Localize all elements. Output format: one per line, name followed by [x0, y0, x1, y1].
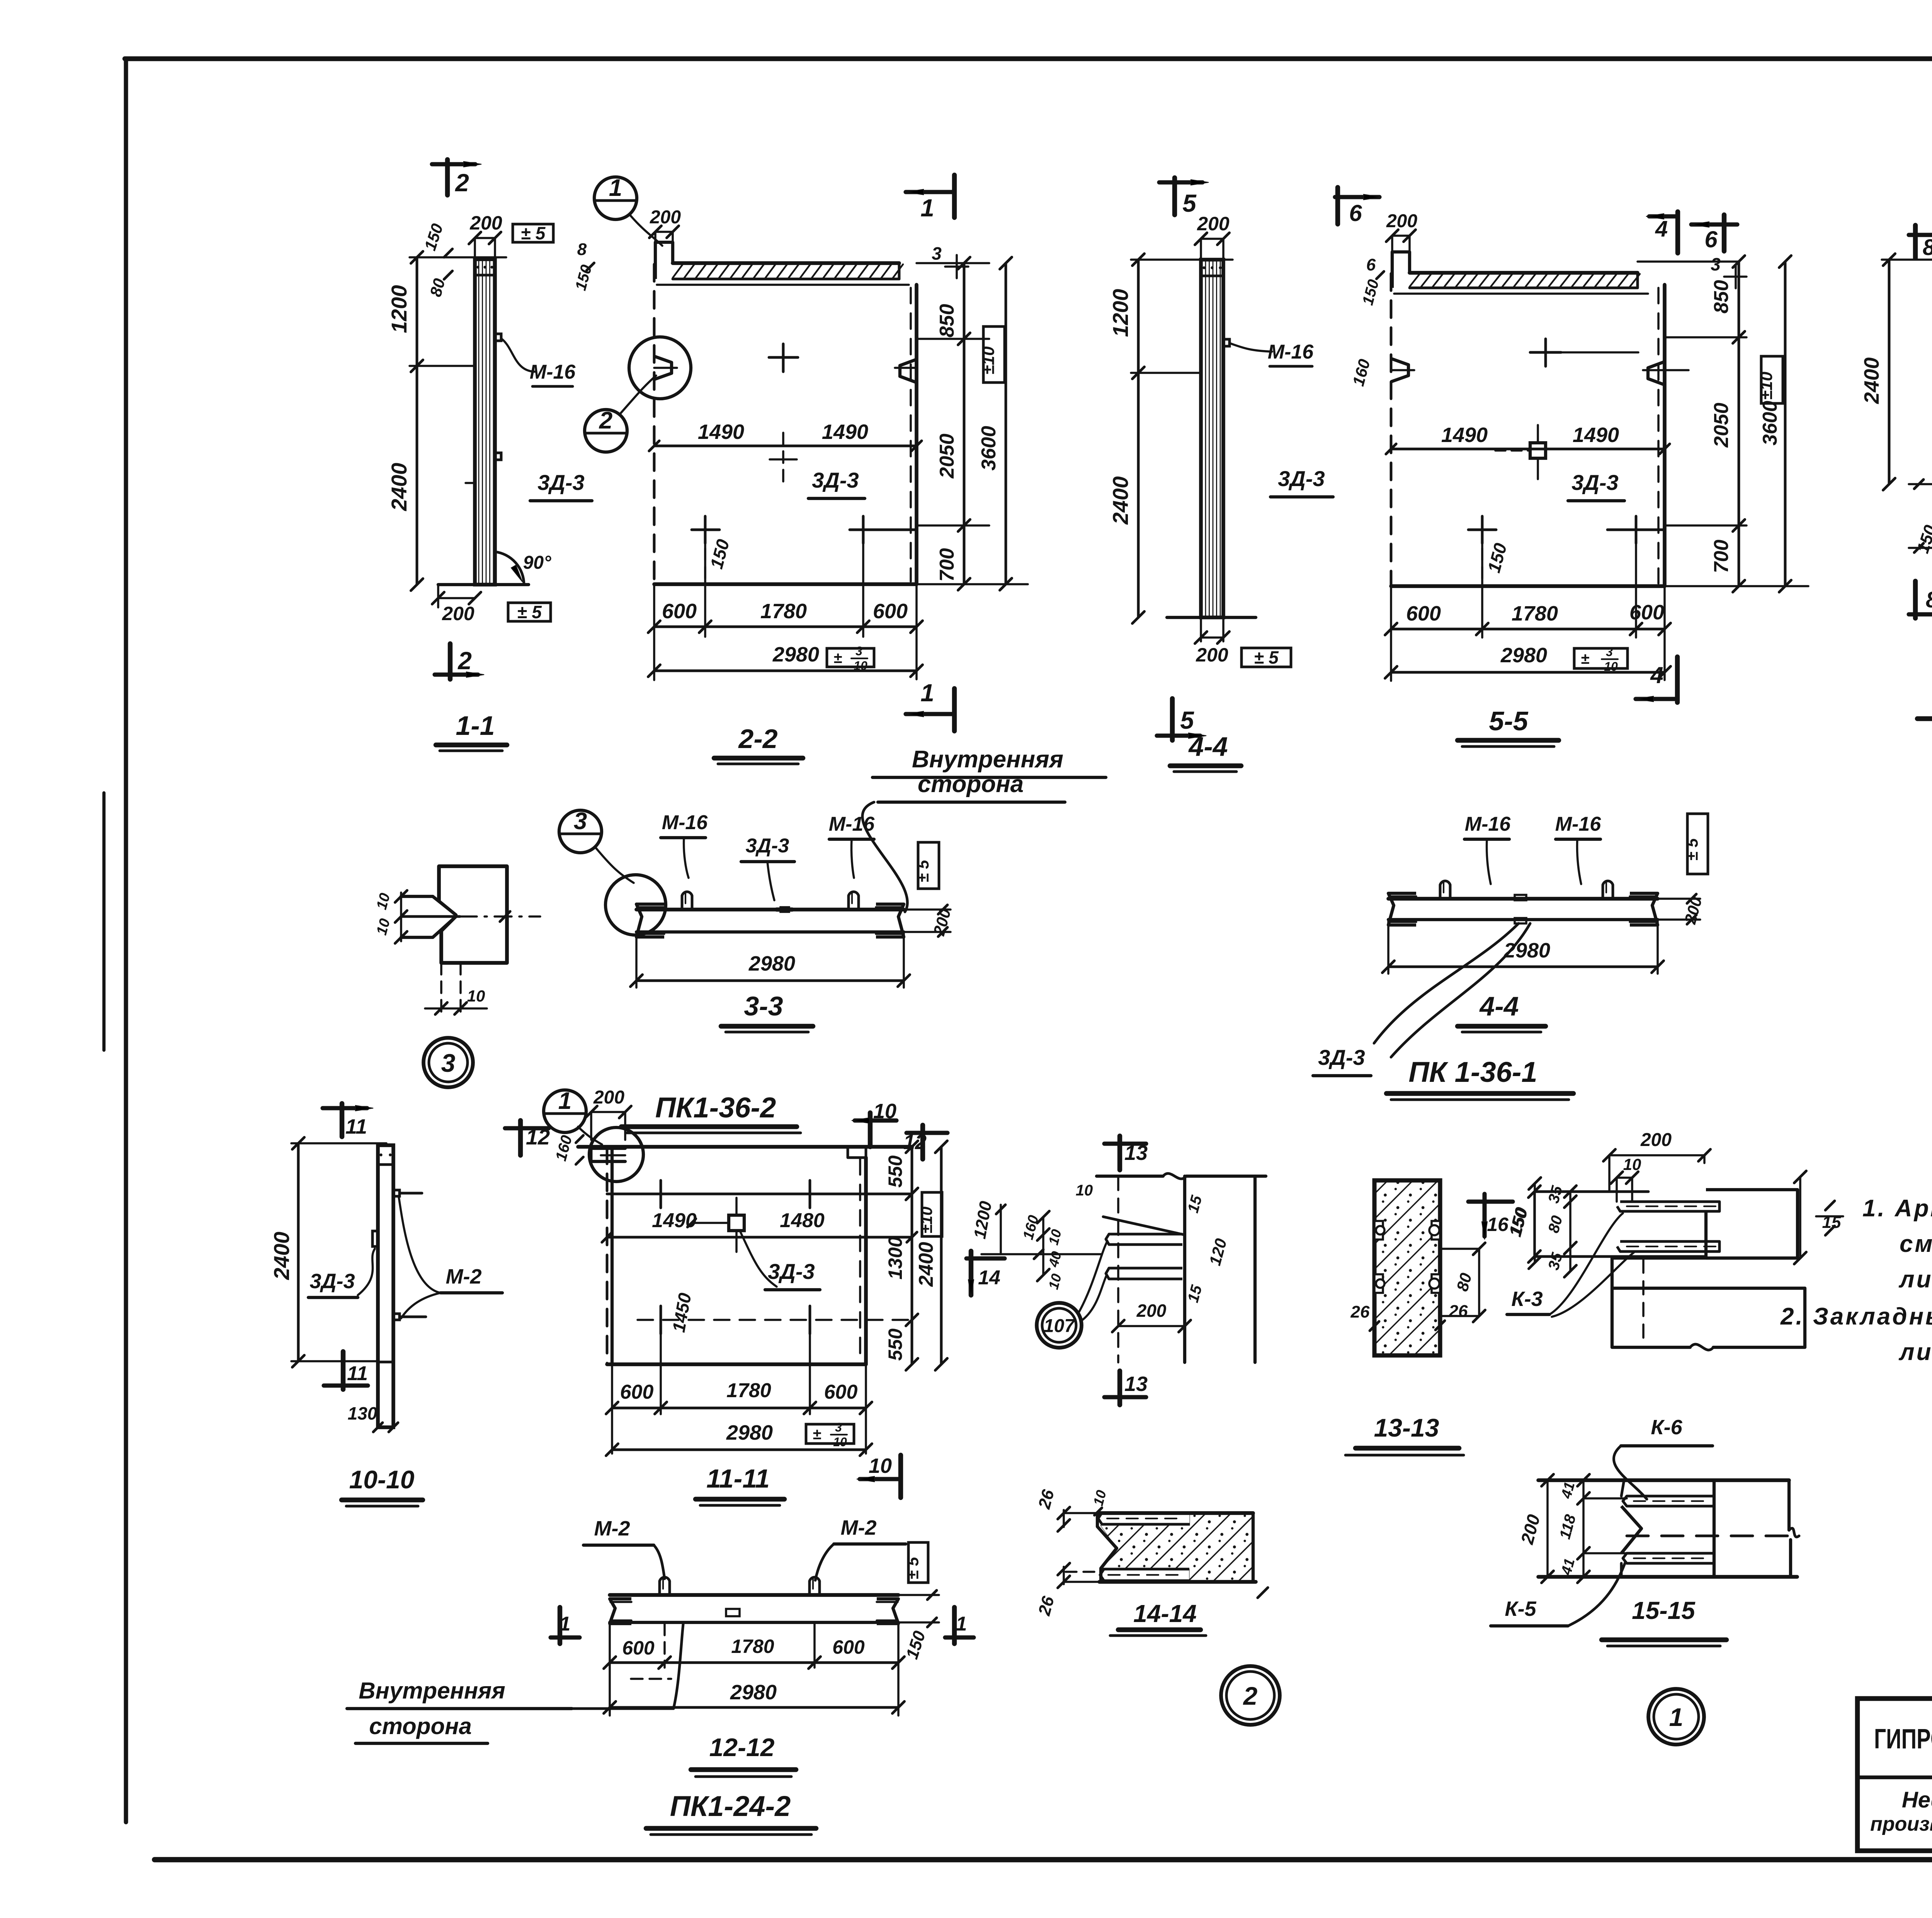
tolerance box 10 — [983, 326, 1005, 383]
svg-text:2: 2 — [599, 407, 612, 434]
svg-text:5: 5 — [1180, 706, 1194, 734]
svg-text:4-4: 4-4 — [1188, 731, 1228, 762]
svg-text:12-12: 12-12 — [709, 1733, 775, 1762]
svg-text:3Д-3: 3Д-3 — [746, 835, 789, 857]
panel 10-10 strip — [378, 1145, 393, 1427]
svg-text:14: 14 — [978, 1267, 1000, 1289]
panel 11-11 left edge — [606, 1147, 609, 1364]
center cross 2-2 — [770, 458, 797, 461]
svg-text:130: 130 — [348, 1403, 378, 1423]
dim 2980 3-3 — [635, 932, 638, 988]
svg-text:13: 13 — [1124, 1372, 1148, 1396]
dim 150 13-13 — [1534, 1183, 1536, 1263]
svg-text:3-3: 3-3 — [744, 991, 783, 1021]
svg-text:200: 200 — [1197, 213, 1230, 235]
dim 150 bottom 7-7 — [1909, 483, 1932, 485]
bottom dim 600 1780 600 11-11 — [612, 1407, 866, 1410]
section marker 4 top — [1649, 214, 1678, 218]
svg-text:12: 12 — [526, 1125, 550, 1149]
hook left 3-3 — [682, 892, 692, 910]
svg-text:11-11: 11-11 — [706, 1464, 770, 1493]
tolerance box 4-4 — [1242, 648, 1291, 667]
panel 2-2 top-left tab — [655, 242, 673, 279]
panel 5-5 right edge — [1663, 285, 1667, 586]
panel 2-2 right edge — [915, 285, 918, 584]
mid line 1490 5-5 — [1391, 448, 1665, 451]
svg-text:200: 200 — [1386, 211, 1417, 231]
block outline 15-15 — [1621, 1480, 1624, 1496]
svg-text:1780: 1780 — [1512, 602, 1558, 625]
svg-text:± 5: ± 5 — [914, 860, 932, 882]
panel 5-5 top-left tab — [1392, 252, 1410, 288]
dim 10 К-3 — [1617, 1177, 1632, 1179]
svg-text:М-16: М-16 — [1465, 813, 1511, 835]
bottom dim 600 1780 600 12-12 — [609, 1622, 611, 1716]
mitre centre line — [401, 915, 460, 918]
break tick right 14-14 — [1258, 1588, 1268, 1598]
svg-text:6: 6 — [1704, 226, 1718, 252]
svg-text:±: ± — [1581, 650, 1589, 667]
center plate square 5-5 — [1530, 443, 1546, 458]
svg-text:Внутренняя: Внутренняя — [912, 746, 1063, 773]
М-16 tab lower — [495, 453, 501, 460]
svg-text:1780: 1780 — [731, 1636, 774, 1657]
dim 200 top-left tab — [655, 231, 673, 233]
svg-text:М-16: М-16 — [1555, 813, 1602, 835]
panel 4-4 strip — [1201, 260, 1223, 617]
svg-text:11: 11 — [345, 1115, 367, 1138]
svg-text:ГИПРОТРУБОПРОВОД: ГИПРОТРУБОПРОВОД — [1874, 1724, 1932, 1755]
svg-text:2: 2 — [1243, 1682, 1258, 1710]
bottom dim line 600 1780 600 5-5 — [1391, 628, 1665, 631]
bar 12-12 outline — [610, 1593, 898, 1597]
svg-text:1: 1 — [956, 1613, 967, 1635]
section marker 11 bottom — [341, 1352, 345, 1389]
right dim chain 3600 — [1005, 263, 1007, 584]
plate bar 1 К-3 — [1617, 1202, 1719, 1211]
groove bar 2 — [1106, 1268, 1182, 1279]
svg-text:200: 200 — [1196, 644, 1228, 666]
mitre joint wedge bar — [401, 895, 433, 898]
dims left 107 — [1042, 1217, 1044, 1275]
h-line 550 level 11-11 — [607, 1193, 912, 1195]
svg-text:3600: 3600 — [1759, 401, 1781, 445]
section marker 6 top — [1691, 222, 1737, 226]
right dim chain 2400 11-11 — [940, 1147, 943, 1364]
right dim chain ticks 11-11 — [866, 1194, 943, 1194]
dim 200 tab 11-11 — [591, 1111, 625, 1113]
svg-text:3: 3 — [1711, 254, 1721, 274]
right cap 12-12 — [877, 1599, 898, 1624]
svg-text:1200: 1200 — [1108, 289, 1133, 337]
section 4-4 cut marker top 5 — [1172, 178, 1177, 215]
panel 2-2 top bar — [673, 261, 899, 265]
svg-text:10-10: 10-10 — [349, 1465, 415, 1494]
tolerance box 4-4 bar — [1687, 814, 1708, 874]
svg-text:11: 11 — [347, 1362, 368, 1385]
svg-text:3: 3 — [574, 808, 587, 835]
svg-text:550: 550 — [884, 1155, 906, 1188]
h-line 1490 level 11-11 — [607, 1236, 912, 1239]
plate bar bottom 14-14 — [1100, 1569, 1189, 1581]
svg-text:4-4: 4-4 — [1479, 991, 1519, 1021]
svg-text:2: 2 — [457, 647, 472, 675]
svg-text:3Д-3: 3Д-3 — [310, 1270, 355, 1293]
svg-text:К-3: К-3 — [1511, 1287, 1543, 1311]
section marker 8 top — [1909, 233, 1932, 237]
tolerance box 12-12 — [908, 1542, 928, 1583]
dim 200 15-15 — [1546, 1480, 1549, 1577]
svg-text:200: 200 — [1640, 1130, 1672, 1150]
left margin tick — [102, 793, 105, 1050]
svg-text:3Д-3: 3Д-3 — [1571, 470, 1618, 495]
svg-text:М-16: М-16 — [1268, 341, 1314, 363]
svg-text:2050: 2050 — [936, 434, 958, 479]
section marker 16 — [1482, 1194, 1486, 1236]
svg-text:700: 700 — [1710, 540, 1733, 573]
dim 1200 to groove — [1000, 1205, 1002, 1254]
cross top 5-5 — [1530, 351, 1561, 354]
svg-text:К-5: К-5 — [1505, 1597, 1536, 1620]
callout circle 1 — [594, 177, 637, 219]
tolerance box top — [513, 224, 553, 242]
dim 200 tab 5-5 — [1392, 235, 1410, 237]
block right edge break 15-15 — [1787, 1480, 1791, 1530]
svg-text:6: 6 — [1366, 255, 1376, 274]
section marker 13 top — [1117, 1136, 1122, 1170]
callout circle 1 mid — [544, 1090, 586, 1132]
left notch 10-10 — [372, 1231, 378, 1246]
center mark 12-12 — [726, 1609, 740, 1616]
dim 150 right 12-12 — [898, 1594, 939, 1596]
dim 15 К-3 — [1825, 1201, 1835, 1210]
М-16 label — [501, 338, 535, 372]
right dim chain 3600 5-5 — [1784, 262, 1787, 586]
center plate 11-11 — [729, 1215, 744, 1231]
dim 200 right 4-4 bar — [1658, 898, 1700, 900]
right top tab 11-11 — [848, 1147, 866, 1158]
svg-text:1490: 1490 — [652, 1209, 697, 1232]
section 4-4 cut marker bottom 5 — [1170, 699, 1175, 740]
bar 4-4 outline — [1388, 897, 1658, 901]
right edge pockets 13-13 — [1432, 1221, 1440, 1240]
svg-text:± 5: ± 5 — [904, 1557, 922, 1580]
svg-text:26: 26 — [1350, 1302, 1370, 1321]
svg-text:1300: 1300 — [884, 1236, 906, 1279]
svg-text:600: 600 — [1406, 602, 1441, 625]
svg-text:3: 3 — [855, 644, 862, 658]
svg-text:15-15: 15-15 — [1632, 1597, 1696, 1624]
right cap 3-3 — [876, 904, 904, 937]
svg-text:550: 550 — [884, 1328, 906, 1361]
left dim chain К-3 — [1533, 1192, 1536, 1257]
groove top incline — [1103, 1217, 1185, 1235]
svg-text:3: 3 — [932, 243, 942, 264]
panel 1-1 outline — [475, 259, 495, 585]
svg-text:2: 2 — [455, 169, 469, 197]
svg-text:10: 10 — [833, 1435, 847, 1449]
svg-text:200: 200 — [593, 1087, 624, 1108]
left cap 3-3 — [636, 904, 664, 937]
mitre dims left — [400, 893, 402, 941]
svg-text:листы №58; 59;60; 69; 71;72;: листы №58; 59;60; 69; 71;72; 73; 80; 85. — [1898, 1266, 1932, 1293]
dim 200 bottom — [438, 585, 439, 603]
dim 200 right 3-3 — [904, 908, 951, 911]
crosses 150 level 5-5 — [1468, 529, 1496, 531]
detail circle 3-3 left cap — [605, 875, 666, 935]
svg-text:5: 5 — [1182, 189, 1197, 217]
svg-text:2980: 2980 — [730, 1681, 777, 1704]
level line 150 К-3 — [1534, 1255, 1706, 1258]
svg-text:200: 200 — [442, 603, 474, 624]
mitre joint block — [439, 866, 507, 963]
right tabs 10-10 — [393, 1190, 400, 1196]
upper block К-3 — [1706, 1190, 1798, 1258]
top-left tab 11-11 — [591, 1147, 625, 1150]
svg-text:2980: 2980 — [1503, 939, 1550, 962]
tolerance box bottom — [508, 603, 551, 621]
svg-text:10: 10 — [1604, 660, 1618, 673]
dim 200 top strip 4-4 — [1201, 238, 1223, 240]
svg-text:±10: ±10 — [917, 1207, 935, 1234]
svg-text:10: 10 — [854, 659, 867, 673]
top edge 15-15 — [1538, 1478, 1789, 1482]
section marker 14 right — [969, 1251, 973, 1295]
svg-text:10: 10 — [1076, 1182, 1093, 1199]
right dim chain 550 1300 550 11-11 — [911, 1147, 913, 1364]
svg-text:2400: 2400 — [1860, 357, 1883, 404]
tolerance box 11-11 — [922, 1192, 942, 1236]
svg-text:К-6: К-6 — [1651, 1416, 1682, 1439]
right dim chain 5-5 ticks — [1665, 336, 1747, 338]
panel 5-5 top bar — [1410, 271, 1638, 275]
section marker 1 bottom right — [906, 712, 954, 716]
svg-text:М-16: М-16 — [530, 361, 576, 383]
svg-text:2400: 2400 — [387, 463, 411, 512]
leader 12-12 — [572, 1707, 673, 1710]
right dim chain 850 2050 700 — [1738, 262, 1740, 586]
svg-text:±10: ±10 — [1757, 371, 1776, 400]
svg-text:600: 600 — [662, 600, 697, 623]
М-16 tab upper — [495, 334, 501, 341]
left cap 12-12 — [610, 1599, 631, 1624]
section 1-1 cut marker top — [445, 160, 450, 195]
section marker 10 bottom — [898, 1455, 903, 1498]
plate bar bottom 15-15 — [1623, 1553, 1714, 1563]
svg-text:М-2: М-2 — [446, 1265, 482, 1288]
border frame — [125, 56, 1932, 61]
inner dashed К-3 — [1642, 1260, 1645, 1345]
svg-text:1: 1 — [1669, 1703, 1684, 1731]
insert right mid 5-5 — [1648, 362, 1665, 385]
svg-text:2400: 2400 — [1108, 476, 1133, 525]
section marker 11 top — [340, 1104, 344, 1137]
top level line К-3 — [1534, 1190, 1648, 1193]
section 1-1 cut marker bottom — [448, 644, 452, 679]
svg-text:3: 3 — [835, 1420, 842, 1434]
position circle 1 — [1648, 1689, 1704, 1745]
svg-text:1: 1 — [920, 679, 934, 707]
svg-text:8: 8 — [577, 240, 587, 259]
svg-text:± 5: ± 5 — [1254, 648, 1279, 668]
insert left mid 5-5 — [1391, 359, 1408, 382]
svg-text:± 5: ± 5 — [1683, 838, 1701, 861]
position circle 3 — [423, 1038, 473, 1087]
svg-text:850: 850 — [936, 304, 958, 338]
panel 11-11 bottom edge — [607, 1362, 866, 1366]
dimension chain 10-10 — [297, 1143, 300, 1361]
svg-text:2400: 2400 — [915, 1242, 937, 1287]
dimension chain 7-7 — [1888, 260, 1891, 484]
svg-text:М-2: М-2 — [841, 1516, 877, 1539]
leader to inner side — [862, 802, 908, 912]
position circle 2 — [1221, 1666, 1280, 1725]
cross top area — [769, 356, 798, 359]
crosses 150 level — [692, 529, 719, 531]
svg-text:1: 1 — [558, 1088, 571, 1114]
svg-text:200: 200 — [650, 207, 681, 228]
dash mark left 14-14 — [1066, 1571, 1097, 1573]
hook left 4-4 bar — [1440, 881, 1450, 899]
svg-text:3: 3 — [1606, 645, 1613, 659]
mid line 1490 — [654, 445, 917, 447]
h-line 1450 dashed 11-11 — [638, 1319, 912, 1321]
section marker 10 12 top right — [868, 1113, 872, 1147]
base line 4-4 — [1167, 616, 1256, 619]
svg-text:2050: 2050 — [1710, 403, 1733, 448]
svg-text:М-2: М-2 — [594, 1517, 630, 1540]
svg-text:1. Армирование и спецификац: 1. Армирование и спецификацию панелей. — [1862, 1195, 1932, 1222]
svg-text:600: 600 — [1629, 601, 1664, 624]
svg-text:10: 10 — [467, 987, 485, 1005]
svg-text:± 5: ± 5 — [517, 602, 542, 622]
section marker 4 bottom — [1675, 657, 1680, 702]
svg-text:200: 200 — [1136, 1301, 1167, 1321]
М-16 label 4-4 — [1230, 343, 1272, 352]
svg-text:13: 13 — [1124, 1141, 1148, 1165]
svg-text:3600: 3600 — [978, 426, 1000, 471]
concrete hatch 14-14 — [1100, 1513, 1253, 1582]
dim 80 13-13 — [1440, 1248, 1479, 1250]
panel 11-11 right edge — [864, 1158, 868, 1364]
insert left mid 2-2 — [654, 356, 672, 379]
panel 2-2 top edge — [657, 284, 909, 286]
svg-text:листы проекта АС-20, 24, 26.: листы проекта АС-20, 24, 26. — [1898, 1339, 1932, 1365]
М-16 tab 4-4 — [1223, 339, 1230, 346]
svg-text:600: 600 — [824, 1381, 858, 1403]
svg-text:850: 850 — [1710, 280, 1733, 314]
plate bar 2 К-3 — [1617, 1241, 1719, 1251]
insert right mid 2-2 — [900, 359, 917, 383]
left dashed edge 107 — [1117, 1176, 1119, 1362]
dim 200 top — [475, 237, 495, 239]
svg-text:1780: 1780 — [726, 1379, 771, 1402]
svg-text:3Д-3: 3Д-3 — [1278, 466, 1325, 491]
right cap 4-4 bar — [1630, 893, 1658, 925]
svg-text:1200: 1200 — [387, 285, 411, 333]
angle 90 — [495, 552, 524, 585]
svg-text:1: 1 — [560, 1613, 571, 1635]
section marker 1 top right — [906, 190, 954, 194]
svg-text:700: 700 — [936, 548, 958, 582]
callout circle 3 — [559, 810, 602, 853]
tolerance box 3-3 — [918, 842, 939, 889]
position circle 107 — [1037, 1303, 1082, 1348]
svg-text:2400: 2400 — [269, 1232, 294, 1280]
hook left 12-12 — [660, 1577, 670, 1595]
svg-text:±: ± — [833, 650, 842, 667]
svg-text:1-1: 1-1 — [456, 711, 495, 741]
dim 2980 4-4 bar — [1387, 920, 1389, 974]
svg-text:2980: 2980 — [772, 643, 819, 666]
svg-text:±: ± — [813, 1426, 821, 1443]
bottom dim 2980 11-11 — [612, 1449, 866, 1451]
svg-text:8: 8 — [1926, 587, 1932, 612]
panel 5-5 bottom edge — [1391, 584, 1665, 588]
concrete block 13-13 — [1374, 1180, 1440, 1355]
svg-text:2. Закладные детали ЗД-3; М: 2. Закладные детали ЗД-3; М-2 и М-16 смо… — [1780, 1303, 1932, 1330]
svg-text:6: 6 — [1349, 200, 1362, 226]
svg-text:1490: 1490 — [1441, 423, 1488, 447]
section 1-1 dimension chain — [416, 257, 418, 585]
svg-text:10: 10 — [1623, 1155, 1641, 1173]
center plates 4-4 bar — [1515, 895, 1526, 900]
dim 200 107 — [1118, 1325, 1185, 1327]
svg-text:3Д-3: 3Д-3 — [537, 470, 584, 495]
plate bar top 14-14 — [1098, 1513, 1190, 1524]
right dim К-3 — [1799, 1177, 1801, 1258]
svg-text:5-5: 5-5 — [1489, 706, 1528, 736]
section marker 6b top mid — [1335, 195, 1379, 199]
panel 5-5 top edge — [1394, 292, 1648, 295]
dim 200 К-3 — [1609, 1154, 1704, 1156]
svg-text:сторона: сторона — [918, 771, 1024, 797]
detail circle on insert — [629, 337, 691, 399]
dashed centerline 15-15 — [1627, 1535, 1801, 1537]
svg-text:2-2: 2-2 — [738, 724, 777, 754]
hook right 12-12 — [810, 1577, 820, 1595]
bottom extension lines 2-2 — [653, 584, 655, 680]
svg-text:2980: 2980 — [726, 1421, 773, 1444]
svg-text:200: 200 — [469, 212, 502, 234]
hook right 3-3 — [849, 892, 859, 910]
inner dim chain 35 80 35 К-3 — [1569, 1192, 1571, 1271]
svg-text:1780: 1780 — [760, 600, 807, 623]
svg-text:производительностью: производительностью — [1870, 1813, 1932, 1835]
mitre dim 10 bottom — [425, 1007, 487, 1010]
dimension chain 4-4 strip — [1137, 260, 1140, 617]
svg-text:14-14: 14-14 — [1133, 1600, 1197, 1627]
plate bar top 15-15 — [1623, 1496, 1714, 1506]
section marker 1 right 12-12 — [952, 1607, 957, 1644]
detail top line with break — [1097, 1175, 1163, 1178]
groove bar 1 — [1106, 1234, 1182, 1245]
svg-text:Внутренняя: Внутренняя — [359, 1678, 505, 1704]
ЗД-3 label and leaders 4-4 bar — [1374, 923, 1519, 1043]
svg-text:10: 10 — [873, 1100, 896, 1123]
panel 11-11 top edge — [578, 1145, 912, 1149]
base line 1-1 — [438, 583, 529, 586]
center notch 3-3 — [777, 907, 792, 911]
svg-text:4: 4 — [1655, 216, 1668, 241]
left edge pockets 13-13 — [1374, 1221, 1383, 1240]
block outline 14-14 — [1097, 1511, 1253, 1515]
bottom dim line 2980 5-5 — [1391, 671, 1665, 674]
section marker 12 top left — [518, 1121, 523, 1155]
svg-text:2980: 2980 — [1500, 644, 1547, 667]
svg-text:600: 600 — [620, 1381, 654, 1403]
left cap 4-4 bar — [1388, 893, 1416, 925]
